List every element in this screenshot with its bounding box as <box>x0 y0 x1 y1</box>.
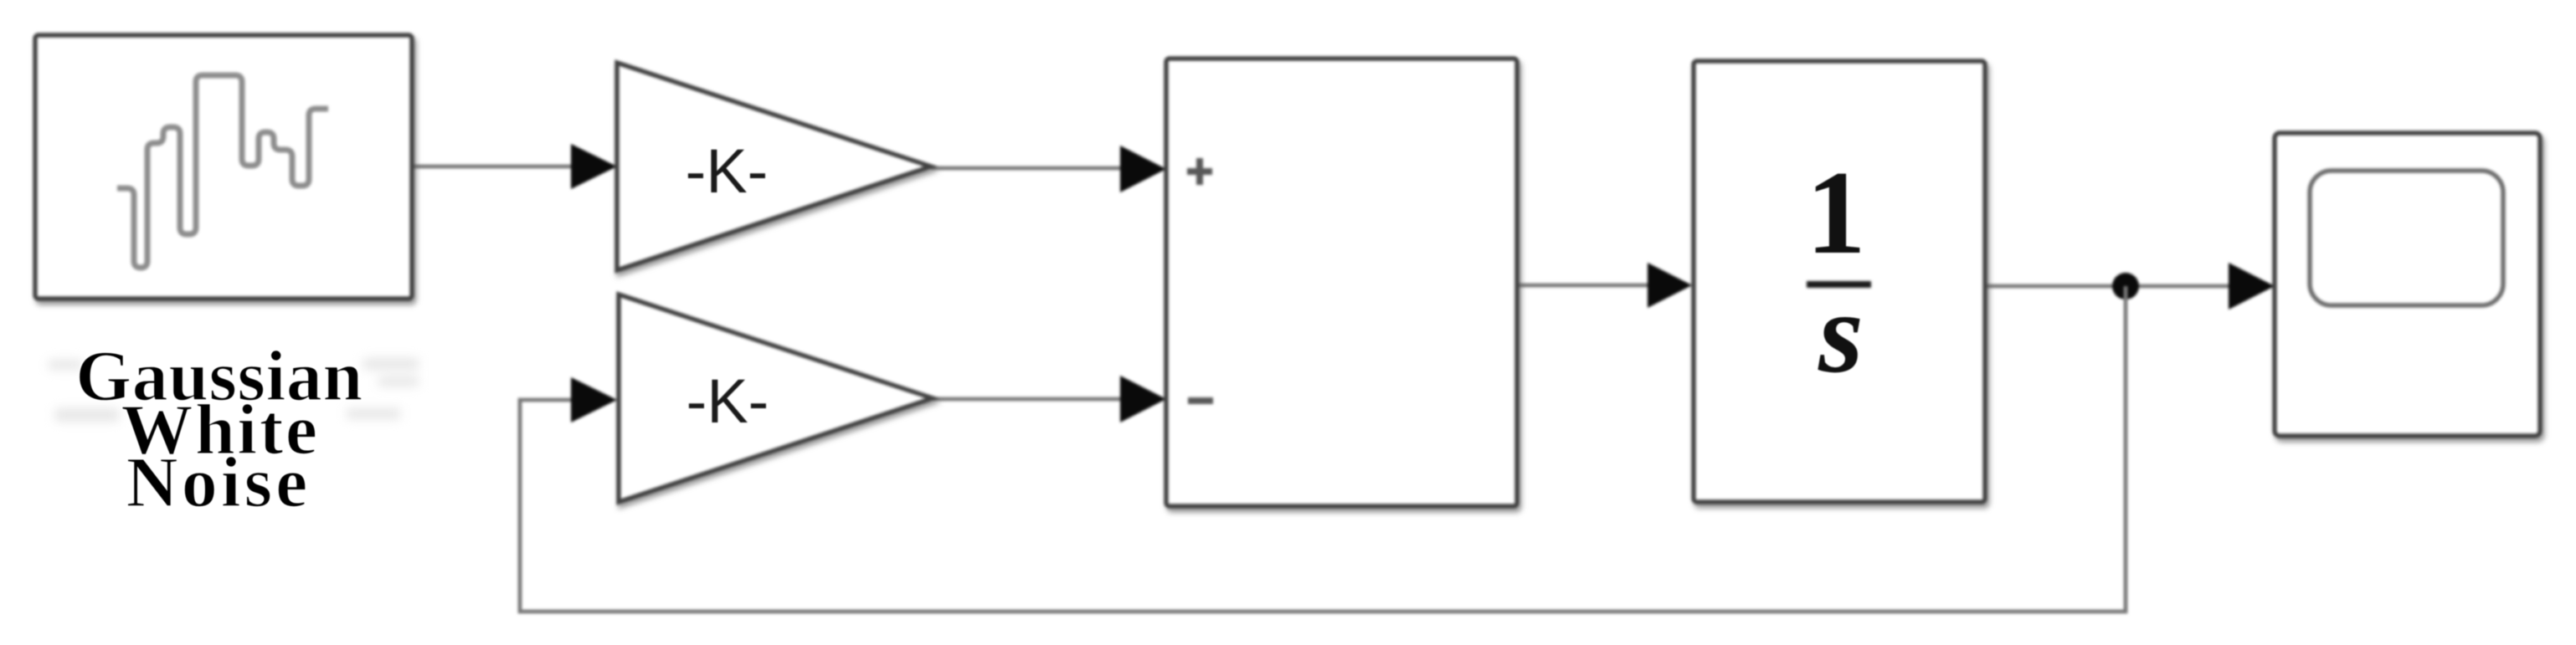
sum block <box>1166 59 1517 506</box>
wire from gain G1 output to sum + input <box>931 166 1147 171</box>
wire from sum output to integrator input <box>1517 284 1673 288</box>
arrowhead into scope <box>2229 263 2275 310</box>
wire from Gaussian White Noise output to gain G1 input <box>412 165 596 169</box>
arrowhead into integrator <box>1648 263 1692 308</box>
integrator denominator s <box>1818 269 1864 397</box>
label Gaussian White Noise <box>75 335 362 522</box>
integrator numerator 1 <box>1806 146 1866 279</box>
plus sign at sum input 1 <box>1187 158 1212 185</box>
feedback wire from node down, left and up to gain G2 input <box>520 286 2126 612</box>
svg-text:Noise: Noise <box>126 442 311 522</box>
svg-text:1: 1 <box>1806 146 1866 279</box>
gain G1 triangle <box>617 63 931 270</box>
Gaussian White Noise source block <box>35 35 412 299</box>
scope block <box>2275 133 2540 436</box>
fraction bar <box>1807 281 1871 288</box>
arrowhead into gain G2 <box>571 377 617 422</box>
svg-text:-K-: -K- <box>686 136 769 206</box>
gain G1 label -K- <box>686 136 769 206</box>
gain G2 label -K- <box>686 366 769 436</box>
scope screen <box>2310 171 2503 305</box>
minus sign at sum input 2 <box>1188 397 1213 404</box>
faint ghost smudges around label <box>49 358 419 422</box>
svg-text:s: s <box>1818 269 1864 397</box>
svg-text:-K-: -K- <box>686 366 769 436</box>
arrowhead into sum - input <box>1120 376 1166 422</box>
wire from integrator output to scope input <box>1985 284 2255 289</box>
junction node dot <box>2112 273 2139 299</box>
arrowhead into sum + input <box>1120 146 1166 192</box>
gain G2 triangle <box>619 294 933 502</box>
arrowhead into gain G1 <box>571 144 617 189</box>
integrator block 1/s <box>1694 61 1985 502</box>
wire from gain G2 output to sum - input <box>933 397 1147 402</box>
